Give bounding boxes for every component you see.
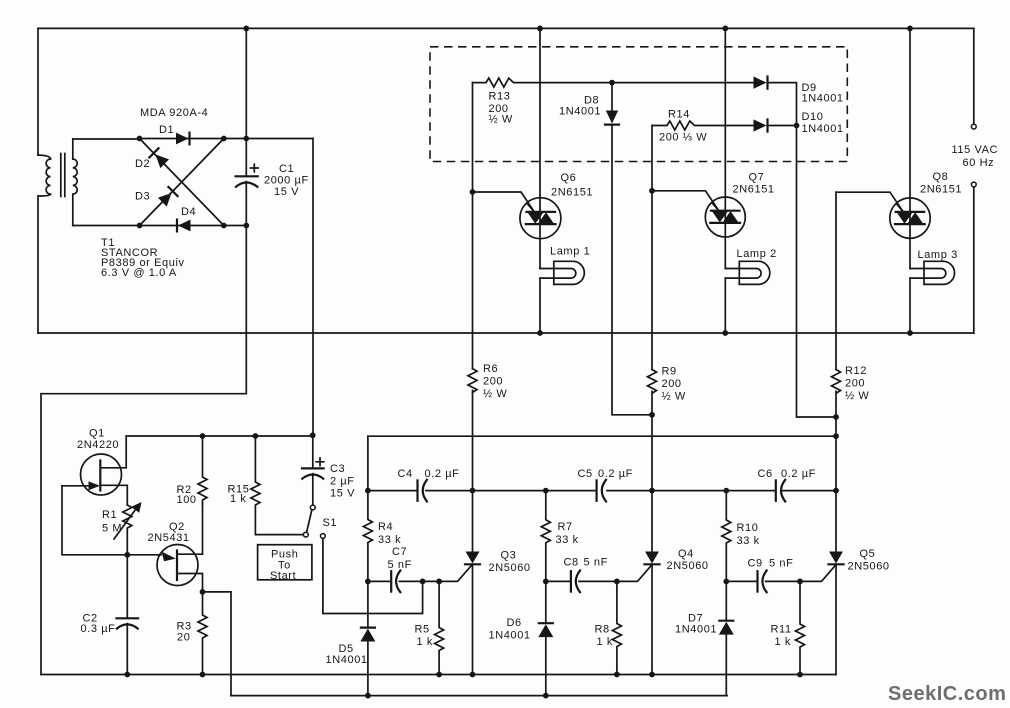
- wire Q8 gate riser: [836, 192, 903, 211]
- svg-text:20: 20: [177, 632, 190, 644]
- wire R14 corner down to Q7 gate: [651, 126, 653, 191]
- svg-text:C8: C8: [564, 557, 579, 569]
- node D8 tap: [609, 80, 615, 86]
- node Q8 top rail: [907, 26, 913, 32]
- wire C7 to Q3 gate: [423, 565, 472, 582]
- node C8 R7: [543, 579, 549, 585]
- wire phase line C4 C5 C6: [368, 490, 836, 492]
- svg-text:SeekIC.com: SeekIC.com: [888, 683, 1006, 705]
- svg-text:½ W: ½ W: [483, 388, 507, 400]
- resistor R1 (variable 5M): [123, 505, 132, 555]
- ground rail A bottom: [41, 674, 836, 676]
- node phase line Q3: [470, 488, 476, 494]
- svg-text:200: 200: [483, 376, 503, 388]
- wire lamp bottom rail: [38, 332, 974, 334]
- svg-text:C7: C7: [392, 546, 407, 558]
- svg-text:½ W: ½ W: [845, 390, 869, 402]
- svg-text:5 nF: 5 nF: [769, 558, 793, 570]
- diode D2: [156, 155, 170, 169]
- svg-text:15 V: 15 V: [274, 186, 299, 198]
- svg-text:1 k: 1 k: [417, 636, 433, 648]
- svg-text:C5: C5: [578, 468, 593, 480]
- transformer T1 primary coil: [38, 155, 51, 159]
- diode D9 (1N4001): [754, 77, 767, 89]
- svg-text:Q6: Q6: [561, 172, 577, 184]
- node C9 R11: [797, 579, 803, 585]
- wire secondary bottom to bridge: [73, 225, 140, 227]
- capacitor C8: [546, 580, 617, 582]
- resistor R15 (1k): [251, 436, 303, 535]
- wire R13 corner down to Q6 gate: [472, 83, 474, 192]
- node Q4 cathode rail A: [649, 672, 655, 678]
- svg-text:5 nF: 5 nF: [388, 559, 412, 571]
- wire DC minus jog from bridge: [41, 226, 246, 675]
- node C2 rail A: [124, 672, 130, 678]
- node C7 trigger: [420, 579, 426, 585]
- wire C9 to Q5 gate: [800, 565, 836, 582]
- node phase line R4: [365, 488, 371, 494]
- svg-text:5 M: 5 M: [102, 523, 122, 535]
- svg-text:1 k: 1 k: [230, 493, 246, 505]
- node D5 rail B: [365, 693, 371, 699]
- svg-text:R6: R6: [483, 363, 498, 375]
- svg-text:33 k: 33 k: [737, 535, 760, 547]
- capacitor C9: [726, 580, 800, 582]
- node phase line Q5: [833, 488, 839, 494]
- node C1 bridge bottom: [243, 223, 249, 229]
- wire oscillator supply rail: [126, 435, 313, 437]
- capacitor C1: [236, 175, 258, 177]
- C1 plus sign: [251, 164, 259, 172]
- svg-text:½ W: ½ W: [489, 114, 513, 126]
- svg-text:C9: C9: [748, 558, 763, 570]
- wire S1 to trigger line: [323, 538, 423, 613]
- svg-text:D10: D10: [802, 111, 824, 123]
- wire Q6 gate: [473, 192, 535, 212]
- diode D1: [176, 133, 189, 145]
- svg-text:1 k: 1 k: [775, 636, 791, 648]
- svg-text:Q5: Q5: [860, 548, 876, 560]
- lamp Lamp 3: [924, 261, 955, 284]
- svg-text:R10: R10: [737, 522, 759, 534]
- triac Q6 (2N6151): [539, 28, 541, 333]
- wire D9 feed: [612, 82, 754, 84]
- node R9 D8 join: [649, 412, 655, 418]
- transistor Q1 (2N4220 JFET): [81, 454, 122, 495]
- svg-text:1N4001: 1N4001: [802, 93, 844, 105]
- resistor R13 (200 half W): [473, 78, 613, 87]
- capacitor C4: [416, 480, 418, 500]
- wire secondary top to bridge: [73, 138, 140, 140]
- resistor R8 (1k): [612, 581, 621, 674]
- svg-text:R7: R7: [558, 521, 573, 533]
- wire SCR anode top rail: [368, 435, 836, 437]
- svg-text:R8: R8: [595, 624, 610, 636]
- svg-text:0.3 µF: 0.3 µF: [81, 623, 116, 635]
- capacitor C7: [368, 580, 423, 582]
- svg-text:0.2 µF: 0.2 µF: [425, 468, 460, 480]
- diode D7 (1N4001): [725, 581, 727, 620]
- wire top AC rail: [38, 27, 974, 29]
- svg-text:1 k: 1 k: [597, 636, 613, 648]
- svg-text:R9: R9: [662, 366, 677, 378]
- wire C8 to Q4 gate: [617, 565, 652, 582]
- node phase line R10: [723, 488, 729, 494]
- wire left border bottom: [37, 196, 39, 333]
- svg-text:R12: R12: [845, 365, 867, 377]
- node C8 R8: [614, 579, 620, 585]
- svg-text:D2: D2: [135, 158, 150, 170]
- svg-text:D4: D4: [181, 206, 196, 218]
- svg-text:2N5060: 2N5060: [848, 561, 890, 573]
- node D10 out: [794, 123, 800, 129]
- svg-text:Lamp 2: Lamp 2: [737, 248, 777, 260]
- diode D8 (1N4001): [611, 83, 613, 110]
- svg-text:C4: C4: [398, 468, 413, 480]
- node R5 rail A: [436, 672, 442, 678]
- svg-text:D1: D1: [159, 124, 174, 136]
- svg-text:33 k: 33 k: [378, 534, 401, 546]
- node osc rail DC feed: [310, 432, 316, 438]
- svg-text:R14: R14: [668, 109, 690, 121]
- lamp Lamp 2: [739, 261, 770, 284]
- wire bridge diagonal BL-TR: [140, 139, 224, 226]
- svg-text:Lamp 3: Lamp 3: [918, 249, 958, 261]
- diode D4: [178, 220, 191, 232]
- wire right drop to terminal 1: [973, 28, 975, 123]
- SCR Q5 (2N5060): [835, 192, 837, 551]
- svg-text:5 nF: 5 nF: [584, 557, 608, 569]
- diode D5 (1N4001): [367, 581, 369, 627]
- node C1 top rail: [243, 26, 249, 32]
- resistor R12 (200 half W) inline: [832, 370, 841, 394]
- node Q7 lamp rail: [722, 330, 728, 336]
- dashed feedback box: [430, 47, 847, 162]
- svg-text:S1: S1: [323, 517, 338, 529]
- svg-text:C1: C1: [279, 163, 294, 175]
- svg-text:6.3 V @ 1.0 A: 6.3 V @ 1.0 A: [101, 267, 177, 279]
- diode D6 (1N4001): [545, 581, 547, 622]
- svg-text:200 ⅓ W: 200 ⅓ W: [659, 132, 707, 144]
- wire C1 branch upper: [245, 28, 247, 176]
- svg-text:1N4001: 1N4001: [489, 630, 531, 642]
- C3 plus sign: [316, 458, 324, 466]
- SCR Q4 (2N5060): [651, 191, 653, 551]
- svg-text:33 k: 33 k: [556, 534, 579, 546]
- svg-text:R1: R1: [102, 509, 117, 521]
- transformer T1 secondary coil: [72, 139, 74, 159]
- node R8 rail A: [614, 672, 620, 678]
- node Q2 emitter junction: [200, 589, 206, 595]
- wire left border top: [37, 28, 39, 155]
- wire bridge diagonal TL-BR: [140, 139, 224, 226]
- svg-text:R11: R11: [771, 624, 792, 636]
- svg-text:Q1: Q1: [89, 428, 105, 440]
- svg-text:2N6151: 2N6151: [733, 184, 775, 196]
- resistor R2 (100): [198, 436, 207, 504]
- node R12 D10 join: [833, 414, 839, 420]
- svg-text:2000 µF: 2000 µF: [264, 175, 309, 187]
- svg-text:1N4001: 1N4001: [559, 106, 601, 118]
- svg-text:115 VAC: 115 VAC: [952, 144, 999, 156]
- node D6 rail B: [543, 693, 549, 699]
- svg-text:2N4220: 2N4220: [77, 439, 119, 451]
- terminal 115VAC top: [971, 124, 976, 129]
- ground rail B bottom: [231, 695, 727, 697]
- node R11 rail A: [797, 672, 803, 678]
- SCR Q3 (2N5060): [472, 192, 474, 551]
- node bridge TR: [221, 136, 227, 142]
- node osc rail R15: [253, 433, 259, 439]
- svg-text:15 V: 15 V: [330, 488, 355, 500]
- node R1 C2 gate junction: [124, 552, 130, 558]
- node phase line R7: [543, 488, 549, 494]
- svg-text:200: 200: [845, 378, 865, 390]
- lamp Lamp 1: [554, 261, 585, 284]
- transistor Q2 (2N5431): [157, 545, 198, 586]
- node Q3 cathode rail A: [470, 672, 476, 678]
- svg-text:0.2 µF: 0.2 µF: [781, 468, 816, 480]
- node C1 bridge top: [243, 136, 249, 142]
- svg-text:Q8: Q8: [933, 171, 949, 183]
- node Q7 top rail: [722, 26, 728, 32]
- svg-text:C3: C3: [330, 463, 345, 475]
- svg-text:R13: R13: [489, 91, 511, 103]
- svg-text:C6: C6: [758, 468, 773, 480]
- node C9 R10: [723, 579, 729, 585]
- resistor R11 (1k): [796, 581, 805, 674]
- svg-text:2N5060: 2N5060: [667, 560, 709, 572]
- svg-text:1N4001: 1N4001: [326, 654, 368, 666]
- resistor R4 (33k): [363, 436, 372, 581]
- resistor R10 (33k): [722, 491, 731, 582]
- node anode rail right end: [833, 433, 839, 439]
- node Q6 top rail: [537, 26, 543, 32]
- svg-text:60 Hz: 60 Hz: [963, 157, 995, 169]
- node C7 R5: [436, 579, 442, 585]
- diode D10 (1N4001): [754, 119, 767, 131]
- svg-text:200: 200: [662, 378, 682, 390]
- node C7 R4: [365, 579, 371, 585]
- svg-text:2N6151: 2N6151: [551, 187, 593, 199]
- svg-text:R5: R5: [415, 624, 430, 636]
- capacitor C3: [312, 435, 314, 468]
- node bridge BL: [137, 223, 143, 229]
- node R3 rail A: [200, 672, 206, 678]
- svg-text:Start: Start: [270, 570, 296, 582]
- svg-text:1N4001: 1N4001: [802, 123, 844, 135]
- svg-text:2N6151: 2N6151: [920, 184, 962, 196]
- resistor R7 (33k): [541, 491, 550, 582]
- wire bridge top: [140, 138, 314, 140]
- triac Q8 (2N6151): [909, 28, 911, 333]
- wire bridge bottom: [140, 225, 247, 227]
- resistor R5 (1k): [435, 581, 444, 674]
- capacitor C2: [126, 555, 128, 618]
- svg-text:Q3: Q3: [501, 550, 517, 562]
- capacitor C5: [595, 480, 597, 500]
- svg-text:Q7: Q7: [749, 172, 765, 184]
- triac Q7 (2N6151): [724, 28, 726, 333]
- svg-text:R4: R4: [378, 521, 393, 533]
- svg-text:2 µF: 2 µF: [330, 476, 355, 488]
- node bridge TL: [137, 136, 143, 142]
- svg-text:2N5431: 2N5431: [148, 532, 190, 544]
- resistor R14 (200 third W): [652, 121, 754, 130]
- svg-text:2N5060: 2N5060: [489, 562, 531, 574]
- switch S1: [310, 505, 315, 510]
- node osc rail R2: [200, 433, 206, 439]
- resistor R9 (200 half W) inline: [648, 370, 657, 394]
- node phase line Q4: [649, 488, 655, 494]
- svg-text:Q4: Q4: [678, 548, 694, 560]
- wire terminal 2 to lamp rail: [973, 187, 975, 333]
- node Q6 gate junction: [470, 189, 476, 195]
- wire Q1 gate loop: [62, 486, 127, 555]
- svg-text:1N4001: 1N4001: [675, 624, 717, 636]
- svg-text:D6: D6: [507, 617, 522, 629]
- wire rail B riser to Q2 emitter: [203, 592, 232, 696]
- diode D3: [158, 193, 172, 207]
- node bridge BR: [221, 223, 227, 229]
- wire D10 drop to R12: [797, 126, 837, 418]
- svg-text:½ W: ½ W: [662, 391, 686, 403]
- wire DC plus drop from bridge: [312, 139, 314, 436]
- svg-text:Lamp 1: Lamp 1: [550, 246, 590, 258]
- capacitor C6: [775, 480, 777, 500]
- node Q7 gate junction: [649, 188, 655, 194]
- node Q8 lamp rail: [907, 330, 913, 336]
- terminal 115VAC bottom: [971, 182, 976, 187]
- transformer T1 core: [60, 154, 62, 197]
- svg-text:100: 100: [177, 494, 197, 506]
- svg-text:MDA 920A-4: MDA 920A-4: [140, 107, 208, 119]
- svg-text:0.2 µF: 0.2 µF: [598, 468, 633, 480]
- wire Q7 gate: [652, 191, 719, 211]
- resistor R6 (200 half W) inline: [468, 369, 477, 393]
- resistor R3 (20): [198, 592, 207, 675]
- node Q6 lamp rail: [537, 330, 543, 336]
- svg-text:D3: D3: [135, 191, 150, 203]
- box push to start: [258, 545, 312, 580]
